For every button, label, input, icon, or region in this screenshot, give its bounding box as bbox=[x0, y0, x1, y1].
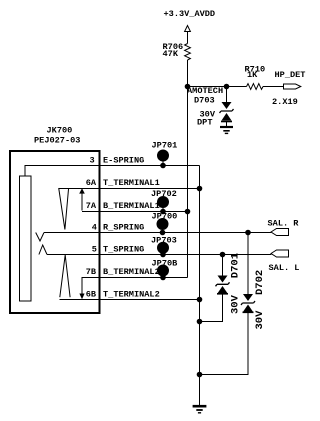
node T1 x200 bbox=[197, 186, 203, 192]
svg-text:SAL. R: SAL. R bbox=[268, 218, 300, 228]
contact tip peak mark pin5 bbox=[39, 245, 47, 255]
node B1 main bbox=[185, 209, 191, 215]
svg-text:6A: 6A bbox=[86, 178, 97, 188]
node junction D703 bbox=[224, 84, 230, 90]
switch arm 7B with arrow bbox=[81, 277, 83, 294]
svg-text:B_TERMINAL1: B_TERMINAL1 bbox=[103, 201, 160, 211]
svg-text:D701: D701 bbox=[230, 253, 242, 278]
connector JK700 box bbox=[10, 151, 100, 313]
resistor R710 bbox=[247, 84, 264, 90]
ground for D703 bbox=[220, 127, 233, 133]
diode D703 bbox=[220, 87, 234, 127]
node D701 to ground net bbox=[197, 319, 203, 325]
wire R710 to HP_DET bbox=[263, 86, 284, 88]
svg-text:T_TERMINAL1: T_TERMINAL1 bbox=[103, 178, 160, 188]
svg-text:JK700: JK700 bbox=[47, 125, 73, 135]
wire vertical right net x200 bbox=[199, 166, 201, 406]
jumper JP702 bbox=[151, 189, 177, 215]
svg-text:4: 4 bbox=[92, 222, 97, 232]
svg-text:5: 5 bbox=[92, 244, 97, 254]
diode D701 bbox=[200, 255, 230, 322]
svg-text:SAL. L: SAL. L bbox=[269, 263, 300, 273]
svg-text:T_SPRING: T_SPRING bbox=[103, 244, 144, 254]
power symbol arrow bbox=[185, 26, 191, 32]
svg-text:1K: 1K bbox=[247, 70, 258, 80]
contact tip V mark pin4 bbox=[36, 233, 44, 242]
wire main vertical x187 bbox=[187, 87, 189, 278]
svg-text:E-SPRING: E-SPRING bbox=[103, 155, 144, 165]
svg-text:7B: 7B bbox=[86, 267, 96, 277]
connector SAL.L bbox=[271, 250, 289, 257]
svg-text:+3.3V_AVDD: +3.3V_AVDD bbox=[164, 9, 216, 19]
wire top horizontal bbox=[188, 86, 247, 88]
resistor R706 bbox=[185, 44, 191, 61]
svg-text:6B: 6B bbox=[86, 289, 96, 299]
connector SAL.R bbox=[271, 229, 289, 236]
wire R_SPRING row bbox=[44, 232, 271, 234]
contact lower spring triangle bbox=[60, 255, 70, 297]
svg-text:DPT: DPT bbox=[197, 118, 212, 128]
svg-text:D703: D703 bbox=[194, 95, 215, 105]
wire B_TERMINAL2 row bbox=[82, 277, 188, 279]
wire R706 to junction bbox=[187, 60, 189, 87]
node junction main bbox=[185, 84, 191, 90]
svg-text:47K: 47K bbox=[163, 49, 179, 59]
svg-text:2.X19: 2.X19 bbox=[272, 97, 298, 107]
node D702 to ground net bbox=[197, 372, 203, 378]
wire E-SPRING row bbox=[100, 165, 200, 167]
svg-text:D702: D702 bbox=[254, 270, 266, 295]
node D701 branch bbox=[220, 252, 226, 258]
svg-text:30V: 30V bbox=[230, 294, 242, 314]
wire T_TERMINAL1 row bbox=[59, 188, 200, 190]
wire B_TERMINAL1 row bbox=[82, 211, 188, 213]
jack sleeve bar bbox=[20, 176, 32, 301]
wire power to R706 bbox=[187, 32, 189, 44]
ground main bbox=[193, 406, 207, 413]
svg-text:PEJ027-03: PEJ027-03 bbox=[34, 136, 80, 146]
svg-text:R_SPRING: R_SPRING bbox=[103, 222, 144, 232]
svg-text:HP_DET: HP_DET bbox=[275, 70, 306, 80]
connector HP_DET bbox=[284, 84, 301, 89]
jumper JP70B bbox=[152, 258, 178, 280]
diode D702 bbox=[200, 233, 256, 375]
svg-text:JP701: JP701 bbox=[152, 140, 178, 150]
svg-text:T_TERMINAL2: T_TERMINAL2 bbox=[103, 289, 160, 299]
svg-text:30V: 30V bbox=[254, 310, 266, 330]
svg-text:3: 3 bbox=[90, 155, 95, 165]
jumper JP703 bbox=[151, 236, 177, 258]
contact upper spring triangle bbox=[59, 188, 69, 230]
svg-text:7A: 7A bbox=[86, 201, 97, 211]
wire T_TERMINAL2 row bbox=[60, 299, 200, 301]
jumper JP701 bbox=[152, 140, 178, 168]
switch arm 7A with arrow bbox=[81, 194, 83, 211]
wire sleeve stem to pin3 bbox=[25, 166, 100, 177]
jumper JP700 bbox=[152, 212, 178, 236]
node SAL.R branch bbox=[245, 230, 251, 236]
wire T_SPRING row bbox=[47, 254, 271, 256]
node T2 x200 bbox=[197, 297, 203, 303]
